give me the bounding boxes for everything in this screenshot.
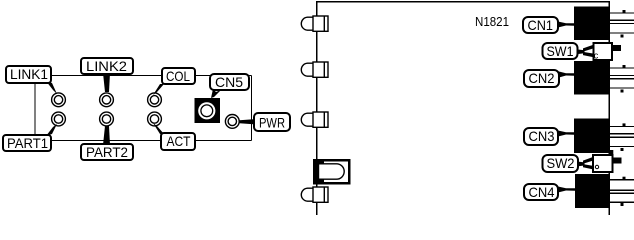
svg-text:SW2: SW2 — [547, 155, 575, 171]
wire: bottom bus — [51, 140, 252, 142]
label CN5 — [210, 74, 249, 98]
LED D3 (LINK2) — [100, 93, 114, 107]
svg-text:CN1: CN1 — [528, 17, 554, 33]
svg-text:SW1: SW1 — [547, 43, 574, 59]
label CN3 — [524, 128, 574, 145]
connector J1 (modular jack) — [313, 159, 351, 185]
board outline — [317, 2, 610, 216]
connector CN2 block — [574, 61, 634, 95]
svg-text:CN4: CN4 — [529, 184, 555, 200]
svg-text:CN2: CN2 — [529, 70, 555, 86]
svg-text:PART1: PART1 — [7, 135, 48, 151]
LED housing H3 — [301, 112, 328, 127]
label CN1 — [523, 17, 574, 33]
svg-text:LINK1: LINK1 — [10, 66, 48, 82]
connector CN5 socket — [195, 98, 221, 123]
svg-text:LINK2: LINK2 — [86, 58, 127, 74]
label CN2 — [524, 70, 574, 87]
svg-text:c: c — [594, 51, 599, 61]
connector CN1 block — [574, 7, 634, 41]
LED D4 (PART2) — [100, 112, 114, 126]
label COL — [153, 68, 195, 95]
wire: top bus — [51, 75, 252, 77]
label ACT — [153, 123, 195, 150]
svg-text:ACT: ACT — [167, 133, 191, 149]
label SW2 — [543, 155, 585, 172]
label PWR — [240, 113, 291, 131]
LED housing H2 — [301, 62, 328, 77]
connector CN4 block — [575, 174, 634, 208]
wire: LINK1-PART1 vertical — [34, 83, 36, 136]
wire: right vertical — [251, 76, 253, 141]
LED D1 (LINK1) — [52, 93, 66, 107]
LED D7 (PWR) — [225, 115, 239, 129]
LED D6 (ACT) — [148, 112, 162, 126]
label CN4 — [524, 184, 575, 200]
LED housing H4 — [301, 187, 328, 202]
switch SW2 — [583, 150, 622, 172]
svg-text:COL: COL — [166, 68, 190, 84]
label PART1 — [3, 124, 57, 151]
label LINK1 — [6, 66, 57, 94]
svg-text:PART2: PART2 — [86, 144, 128, 160]
LED D2 (PART1) — [52, 112, 66, 126]
LED housing H1 — [301, 16, 328, 31]
label LINK2 — [81, 58, 133, 92]
LED D5 (COL) — [148, 93, 162, 107]
svg-text:PWR: PWR — [259, 115, 285, 131]
svg-text:CN5: CN5 — [215, 74, 243, 90]
label PART2 — [81, 126, 133, 160]
label SW1 — [543, 43, 585, 59]
svg-text:N1821: N1821 — [475, 14, 509, 29]
switch SW1 — [583, 43, 621, 61]
svg-text:CN3: CN3 — [529, 128, 555, 144]
connector CN3 block — [574, 119, 634, 154]
